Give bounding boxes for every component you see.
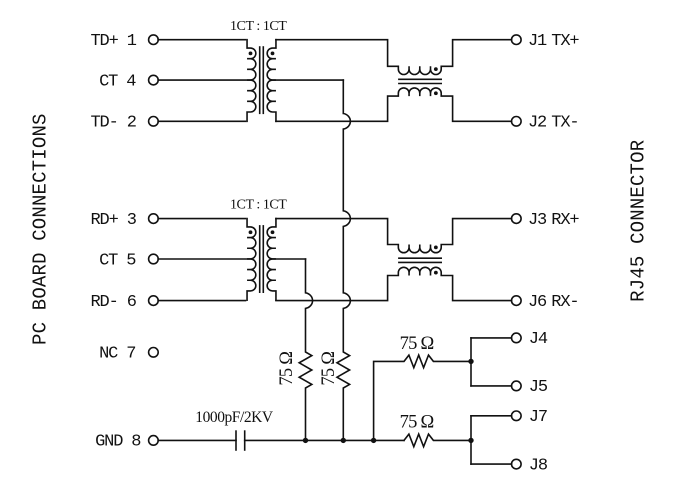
svg-text:75 Ω: 75 Ω	[319, 352, 339, 386]
svg-text:RD+ 3: RD+ 3	[91, 211, 137, 230]
svg-text:J1: J1	[528, 32, 547, 51]
svg-text:NC 7: NC 7	[99, 345, 135, 364]
svg-text:1000pF/2KV: 1000pF/2KV	[195, 409, 274, 426]
svg-text:RX-: RX-	[551, 293, 578, 312]
svg-text:J3: J3	[528, 211, 547, 230]
svg-text:J7: J7	[529, 408, 547, 427]
svg-text:RJ45 CONNECTOR: RJ45 CONNECTOR	[628, 140, 650, 302]
svg-text:CT 5: CT 5	[99, 251, 136, 270]
svg-text:J6: J6	[528, 293, 547, 312]
svg-text:RX+: RX+	[551, 211, 579, 230]
svg-text:J4: J4	[529, 330, 548, 349]
svg-text:RD- 6: RD- 6	[91, 293, 137, 312]
svg-text:CT 4: CT 4	[99, 72, 136, 91]
svg-text:TX-: TX-	[551, 114, 578, 133]
svg-text:75 Ω: 75 Ω	[277, 352, 297, 386]
svg-text:75 Ω: 75 Ω	[400, 334, 434, 354]
svg-text:TD+ 1: TD+ 1	[91, 32, 137, 51]
svg-text:TX+: TX+	[551, 32, 579, 51]
svg-text:PC BOARD CONNECTIONS: PC BOARD CONNECTIONS	[30, 113, 52, 345]
svg-text:TD- 2: TD- 2	[91, 114, 136, 133]
svg-text:J5: J5	[529, 378, 548, 397]
svg-text:J2: J2	[528, 114, 546, 133]
svg-text:1CT : 1CT: 1CT : 1CT	[230, 198, 287, 213]
svg-text:J8: J8	[529, 456, 548, 475]
svg-text:GND 8: GND 8	[95, 433, 141, 452]
svg-text:75 Ω: 75 Ω	[400, 413, 434, 433]
svg-text:1CT : 1CT: 1CT : 1CT	[230, 19, 287, 34]
